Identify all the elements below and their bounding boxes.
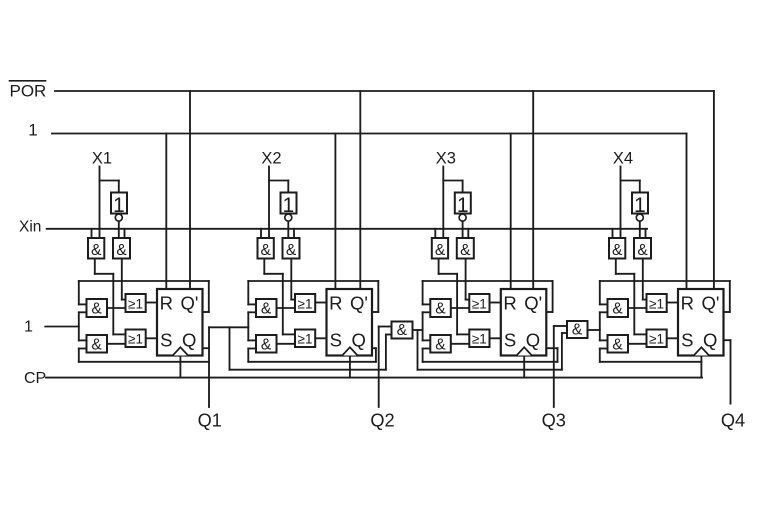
svg-text:≥1: ≥1 (298, 332, 313, 347)
svg-text:Q3: Q3 (542, 411, 566, 431)
svg-text:R: R (681, 293, 694, 314)
svg-text:&: & (460, 242, 471, 259)
svg-text:≥1: ≥1 (472, 332, 487, 347)
svg-text:X3: X3 (436, 149, 456, 167)
svg-text:&: & (91, 336, 102, 353)
svg-text:CP: CP (24, 370, 46, 387)
svg-text:≥1: ≥1 (298, 296, 313, 311)
svg-text:Q1: Q1 (198, 411, 222, 431)
svg-text:&: & (261, 242, 272, 259)
svg-text:&: & (612, 301, 623, 318)
svg-text:1: 1 (24, 319, 33, 336)
svg-text:S: S (160, 329, 172, 350)
svg-text:X4: X4 (613, 149, 633, 167)
svg-text:X1: X1 (92, 149, 112, 167)
svg-text:Q2: Q2 (370, 411, 394, 431)
svg-text:S: S (681, 329, 693, 350)
svg-text:Xin: Xin (19, 219, 41, 236)
svg-text:≥1: ≥1 (128, 296, 143, 311)
svg-text:&: & (261, 336, 272, 353)
svg-text:Q': Q' (524, 293, 542, 314)
svg-text:S: S (504, 329, 516, 350)
svg-text:≥1: ≥1 (472, 296, 487, 311)
svg-text:&: & (612, 242, 623, 259)
svg-text:≥1: ≥1 (649, 332, 664, 347)
svg-text:1: 1 (283, 194, 295, 217)
svg-text:&: & (612, 336, 623, 353)
svg-text:1: 1 (457, 194, 469, 217)
svg-text:&: & (91, 242, 102, 259)
svg-text:Q': Q' (350, 293, 368, 314)
svg-text:&: & (637, 242, 648, 259)
svg-text:&: & (261, 301, 272, 318)
svg-text:&: & (286, 242, 297, 259)
svg-text:1: 1 (28, 120, 37, 139)
svg-text:Q': Q' (702, 293, 720, 314)
svg-text:1: 1 (634, 194, 646, 217)
svg-text:≥1: ≥1 (128, 332, 143, 347)
svg-text:Q: Q (526, 329, 540, 350)
svg-text:&: & (435, 301, 446, 318)
svg-text:POR: POR (10, 82, 47, 101)
svg-text:R: R (160, 293, 173, 314)
svg-text:Q: Q (703, 329, 717, 350)
svg-text:≥1: ≥1 (649, 296, 664, 311)
svg-text:&: & (572, 321, 583, 338)
svg-text:Q: Q (182, 329, 196, 350)
svg-text:1: 1 (113, 194, 125, 217)
svg-text:&: & (435, 242, 446, 259)
svg-text:S: S (330, 329, 342, 350)
svg-text:Q': Q' (181, 293, 199, 314)
svg-text:&: & (116, 242, 127, 259)
svg-text:&: & (91, 301, 102, 318)
svg-text:Q4: Q4 (721, 410, 745, 430)
svg-text:R: R (503, 293, 516, 314)
svg-text:Q: Q (352, 329, 366, 350)
svg-text:&: & (397, 322, 408, 339)
svg-text:X2: X2 (261, 149, 281, 167)
svg-text:R: R (329, 293, 342, 314)
svg-text:&: & (435, 336, 446, 353)
